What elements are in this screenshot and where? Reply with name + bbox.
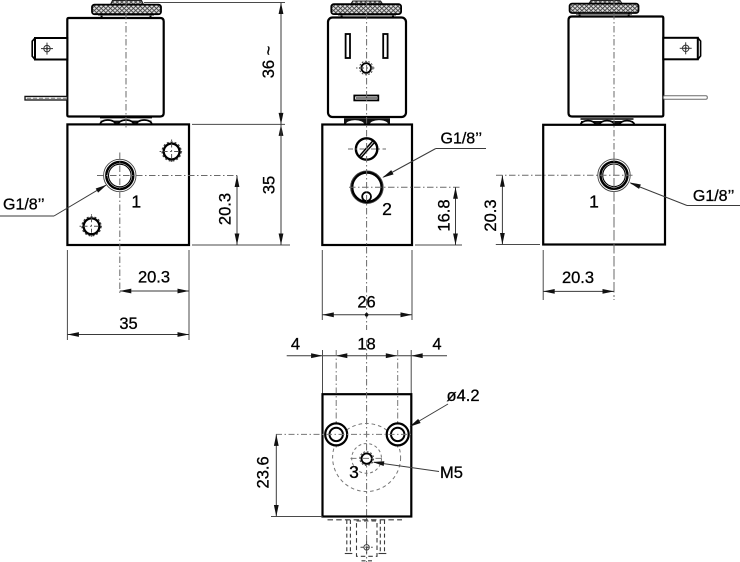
svg-text:26: 26	[357, 294, 375, 312]
svg-text:1: 1	[589, 191, 599, 211]
svg-text:1: 1	[131, 191, 141, 211]
svg-text:36 ~: 36 ~	[260, 46, 278, 79]
svg-text:ø4.2: ø4.2	[446, 387, 479, 405]
svg-text:20.3: 20.3	[562, 269, 594, 287]
svg-text:3: 3	[349, 462, 359, 482]
svg-text:G1/8’’: G1/8’’	[693, 188, 735, 205]
svg-text:G1/8’’: G1/8’’	[3, 197, 45, 214]
svg-text:16.8: 16.8	[435, 199, 453, 231]
svg-text:20.3: 20.3	[482, 199, 500, 231]
svg-text:20.3: 20.3	[216, 193, 234, 225]
svg-text:2: 2	[382, 199, 392, 219]
svg-text:4: 4	[432, 335, 441, 353]
svg-text:4: 4	[291, 335, 300, 353]
svg-text:20.3: 20.3	[138, 268, 170, 286]
svg-text:35: 35	[260, 176, 278, 194]
svg-text:35: 35	[119, 315, 137, 333]
svg-text:23.6: 23.6	[255, 456, 273, 488]
svg-text:G1/8’’: G1/8’’	[441, 131, 483, 148]
svg-text:M5: M5	[440, 464, 463, 482]
